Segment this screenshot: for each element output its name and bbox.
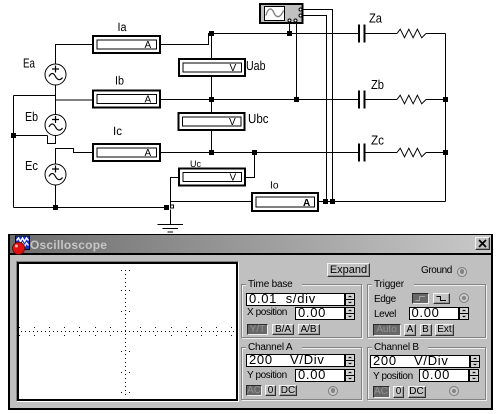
channel A indicator [328, 386, 338, 396]
time base spinner [345, 293, 355, 306]
B button [420, 324, 432, 336]
time base value field [246, 293, 345, 306]
Expand button [327, 263, 370, 277]
capacitor Zc plates [359, 144, 365, 162]
node Zb at right bus [443, 97, 448, 102]
node scope tap on phase B [294, 97, 299, 102]
wire Ea+ to Ia [56, 45, 94, 65]
svg-text:V: V [230, 63, 237, 74]
node scope gnd tap 1 [330, 199, 335, 204]
ammeter Ic [93, 144, 160, 161]
oscilloscope instrument icon XSC [260, 4, 303, 23]
scope display [16, 261, 239, 402]
wire neutral left bus [13, 96, 15, 208]
node scope ch tap on phase A [287, 31, 292, 36]
capacitor Za plates [359, 25, 365, 43]
node neutral at ground [164, 205, 169, 210]
channel A scale field [246, 354, 345, 367]
resistor Zb zigzag [397, 95, 426, 104]
Y/T button [247, 324, 268, 335]
wire Za cap to Za resistor [366, 33, 398, 35]
ground [158, 205, 184, 232]
Channel B group [367, 347, 486, 400]
wire Ea- down to Eb+ [55, 85, 57, 115]
wire scope right terminal 2 [303, 16, 327, 202]
channel A scale spinner [345, 354, 355, 367]
DC button (channel B) [408, 386, 426, 398]
node phase A / Uab tap [209, 31, 214, 36]
edge indicator [459, 293, 469, 303]
wire Io to right bus [318, 201, 446, 203]
Ground indicator [457, 267, 467, 277]
wire Ec- to neutral [55, 185, 57, 208]
wire neutral bottom [14, 207, 167, 209]
svg-text:Uab: Uab [246, 58, 266, 73]
svg-text:A: A [145, 148, 152, 159]
channel B Y position spinner [469, 369, 479, 382]
wire scope terminal 2 to phase B [296, 23, 298, 100]
wire Ib to Zb (phase B bus) [160, 99, 358, 101]
wire Ia to Za (phase A bus) [160, 34, 358, 45]
resistor Za zigzag [397, 29, 426, 38]
wire Zc cap to Zc resistor [366, 152, 398, 154]
svg-text:A: A [145, 40, 152, 51]
edge falling button [433, 293, 450, 304]
node Eb- at left bus [11, 133, 16, 138]
wire Ubc top [211, 100, 213, 114]
ammeter Ib [93, 91, 160, 108]
wire Ic to Zc (phase C bus) [160, 152, 358, 154]
wire neutral node to Io [171, 201, 253, 203]
B/A button [272, 324, 294, 335]
node Zc at right bus [443, 150, 448, 155]
wire Eb+ to Ib [56, 99, 94, 101]
wire Uab bottom [211, 76, 213, 100]
svg-text:Ia: Ia [118, 20, 127, 34]
node phase B / Uab-Ubc tap [209, 97, 214, 102]
resistor Zc zigzag [397, 148, 426, 157]
ac source Ec [45, 164, 66, 185]
channel A Y position field [295, 369, 345, 382]
svg-text:Za: Za [369, 11, 383, 26]
wire left bus to Ea- [14, 95, 56, 97]
Channel A group [241, 347, 362, 400]
svg-text:Zb: Zb [371, 77, 384, 92]
svg-text:Io: Io [270, 180, 279, 192]
trigger level field [409, 307, 459, 320]
wire Eb- hook [48, 135, 56, 144]
wire Uc right to phase C [245, 153, 255, 178]
oscilloscope window [8, 234, 493, 410]
svg-text:Ubc: Ubc [248, 111, 269, 126]
ac source Ea [45, 64, 66, 85]
X position field [295, 307, 345, 320]
wire Ubc bottom [211, 130, 213, 153]
voltmeter Ubc [179, 113, 245, 130]
A button [404, 324, 416, 336]
Time base group [241, 284, 362, 338]
svg-text:Ib: Ib [115, 74, 124, 88]
channel B Y position field [419, 369, 469, 382]
capacitor Zb plates [359, 91, 365, 109]
channel A Y position spinner [345, 369, 355, 382]
svg-text:Zc: Zc [371, 133, 384, 148]
wire scope terminal 1 to phase A [289, 23, 291, 34]
svg-text:Uc: Uc [190, 159, 201, 170]
AC button (channel A) [246, 385, 262, 396]
wire Za to right bus [426, 33, 446, 35]
Ground label [421, 265, 452, 276]
node phase C / Ubc tap [209, 150, 214, 155]
svg-text:A: A [303, 198, 310, 209]
wire Zc to right bus [426, 152, 446, 154]
svg-text:Eb: Eb [25, 109, 38, 124]
svg-text:Ea: Ea [23, 56, 36, 71]
ammeter Io [252, 193, 318, 211]
0 button (channel B) [393, 386, 404, 398]
voltmeter Uc [179, 169, 245, 186]
ac source Eb [45, 115, 66, 136]
node Ec- at neutral [53, 205, 58, 210]
wire neutral node down to ground [170, 202, 172, 206]
svg-text:V: V [230, 173, 237, 184]
trigger level spinner [459, 307, 469, 320]
ammeter Ia [93, 36, 160, 53]
wire Uab top [211, 34, 213, 60]
Trigger group [367, 284, 486, 338]
node phase C / Uc tap [252, 150, 257, 155]
wire scope right terminal 1 [303, 10, 333, 202]
wire Zb cap to Zb resistor [366, 99, 398, 101]
AC button (channel B) [373, 386, 390, 398]
voltmeter Uab [179, 59, 245, 76]
wire right bus [445, 34, 447, 202]
DC button (channel A) [279, 385, 297, 396]
wire left bus to Eb- [14, 135, 48, 137]
0 button (channel A) [265, 385, 276, 396]
edge rising button (pressed) [412, 293, 429, 304]
window icon [10, 235, 32, 256]
channel B indicator [449, 386, 459, 396]
svg-text:Ec: Ec [25, 158, 38, 173]
wire Uc left to neutral node [171, 178, 180, 202]
svg-text:A: A [145, 95, 152, 106]
channel B scale spinner [470, 355, 480, 368]
Ext button [435, 324, 454, 336]
A/B button [298, 324, 320, 335]
Auto button [373, 324, 401, 336]
wire Zb to right bus [426, 99, 446, 101]
X position spinner [345, 307, 355, 320]
channel B scale field [370, 355, 470, 368]
node scope gnd tap 2 [323, 199, 328, 204]
close button [475, 237, 490, 250]
svg-text:V: V [229, 117, 236, 128]
svg-text:Ic: Ic [113, 124, 122, 138]
wire Ec+ to Ic [56, 149, 94, 165]
